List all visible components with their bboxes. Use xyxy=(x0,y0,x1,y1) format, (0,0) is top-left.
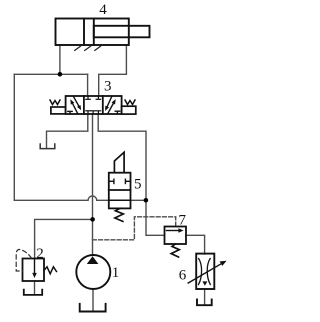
wire main line to travel valve with hop over P xyxy=(14,196,109,200)
relief valve V2 pilot dashes xyxy=(16,249,31,271)
relief valve V2 arrow xyxy=(34,259,36,274)
wire node to sequence valve xyxy=(146,200,165,235)
spring left w xyxy=(50,100,60,105)
throttle tank xyxy=(197,300,212,306)
wire left rail xyxy=(13,74,15,200)
solenoid right xyxy=(122,106,136,114)
throttle valve V6 curves xyxy=(199,259,211,285)
relief valve V2 spring xyxy=(44,267,57,274)
wire relief valve to tank xyxy=(34,281,36,294)
travel valve V5 open passage xyxy=(109,199,131,201)
svg-text:6: 6 xyxy=(179,268,187,284)
node A junction cylinder/valve xyxy=(58,72,63,77)
wire A port drop xyxy=(87,74,89,96)
pump P1 circle xyxy=(76,255,110,289)
tank under valve 3 xyxy=(40,144,55,149)
throttle valve V6 adjust arrow xyxy=(188,263,222,283)
node P junction pump line xyxy=(90,217,95,222)
wire T port to tank xyxy=(47,114,88,148)
travel valve V5 plunger xyxy=(114,152,124,172)
pump P1 triangle xyxy=(87,256,99,264)
travel valve V5 spring xyxy=(115,208,123,221)
valve V3 right position arrows xyxy=(107,97,113,114)
pump tank xyxy=(80,304,106,312)
sequence valve V7 body xyxy=(165,227,187,245)
throttle valve V6 flow arrow xyxy=(202,281,207,285)
relief valve tank xyxy=(24,290,42,295)
svg-text:2: 2 xyxy=(36,246,44,262)
wire cylinder right port to valve B xyxy=(99,45,127,96)
sequence valve V7 arrow xyxy=(167,230,181,232)
relief valve V2 body xyxy=(23,259,45,282)
valve V3 left T mark xyxy=(68,111,72,114)
travel valve V5 blocked marks xyxy=(109,179,131,183)
valve V3 body xyxy=(66,96,122,114)
cylinder hatch marks xyxy=(75,46,101,50)
wire P line pump to valve xyxy=(92,114,94,255)
wire cylinder left port down xyxy=(59,45,61,74)
wire travel valve out to node xyxy=(131,199,146,201)
wire pump to tank xyxy=(92,289,94,311)
wire P node to relief valve xyxy=(35,219,93,258)
solenoid left xyxy=(51,107,66,114)
travel valve V5 body xyxy=(109,173,131,209)
svg-text:1: 1 xyxy=(112,265,120,281)
wire horizontal to valve A xyxy=(14,73,87,75)
svg-text:5: 5 xyxy=(134,177,142,193)
valve V3 right T mark xyxy=(115,111,119,114)
wire pilot line dashed xyxy=(93,217,176,240)
svg-text:3: 3 xyxy=(104,79,112,95)
valve V3 center blocked marks xyxy=(86,96,101,114)
svg-text:4: 4 xyxy=(99,2,107,18)
valve V3 left position arrows xyxy=(73,97,79,113)
node B junction travel valve out xyxy=(144,198,149,203)
wire sequence valve to throttle xyxy=(186,235,205,254)
svg-text:7: 7 xyxy=(179,212,187,228)
sequence valve V7 spring xyxy=(171,244,179,257)
wire branch to speed control xyxy=(98,114,146,200)
wire throttle to tank xyxy=(204,290,206,305)
spring right w xyxy=(125,100,135,105)
cylinder C4 body xyxy=(56,19,150,46)
throttle valve V6 body xyxy=(196,254,214,289)
